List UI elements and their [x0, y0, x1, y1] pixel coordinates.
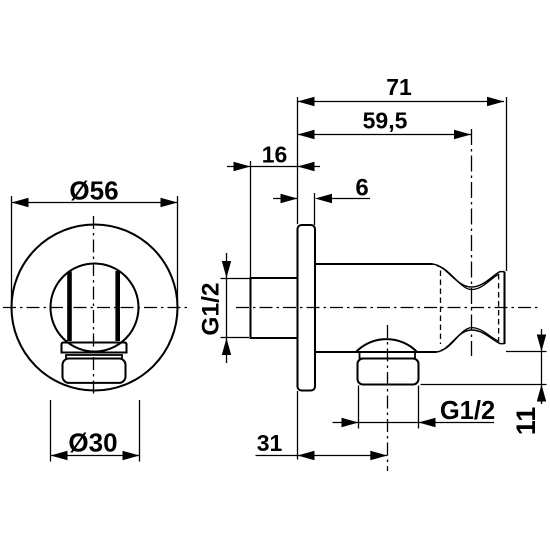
holder slot left thick bar — [67, 272, 72, 342]
svg-text:6: 6 — [355, 175, 368, 202]
dimension 59,5 — [298, 108, 472, 140]
dimension 6 — [273, 175, 370, 226]
bottom outlet dome — [356, 339, 417, 352]
dimension G1/2 left (inlet) — [198, 253, 251, 363]
holder bottom inner curve — [441, 328, 499, 351]
boss inner circle (Ø30) — [51, 264, 139, 352]
svg-text:16: 16 — [262, 142, 288, 168]
wall plate side — [298, 225, 316, 391]
dimension 31 — [256, 391, 388, 460]
svg-text:Ø56: Ø56 — [69, 176, 118, 206]
svg-text:11: 11 — [511, 407, 541, 436]
holder hidden line left — [440, 271, 442, 345]
svg-text:G1/2: G1/2 — [198, 282, 225, 335]
outlet nut front — [63, 359, 126, 383]
body bottom line — [315, 351, 437, 353]
svg-text:31: 31 — [257, 430, 283, 456]
dimension Ø30 — [51, 400, 140, 462]
outlet nut axis centerline — [387, 325, 389, 471]
holder bottom outer curve — [437, 330, 505, 352]
svg-text:59,5: 59,5 — [363, 108, 408, 134]
dimension Ø56 — [12, 176, 178, 306]
holder top inner curve — [437, 266, 499, 290]
wall plate outer circle (Ø56) — [12, 225, 178, 391]
dimension G1/2 bottom (outlet) — [333, 386, 496, 429]
svg-text:71: 71 — [386, 74, 412, 100]
body top line — [315, 263, 433, 265]
holder slot right thick bar — [115, 271, 120, 341]
side view horizontal centerline — [236, 307, 540, 309]
holder axis centerline — [471, 129, 473, 356]
holder hidden line right — [498, 274, 500, 342]
bottom outlet washer side — [360, 353, 416, 359]
svg-text:Ø30: Ø30 — [68, 428, 117, 458]
dimension 71 — [298, 74, 507, 271]
outlet flange front — [62, 343, 127, 353]
holder top outer curve — [433, 264, 505, 287]
outlet washer front — [66, 355, 122, 359]
dimension 16 — [227, 142, 320, 280]
dimension 11 (right) — [421, 329, 547, 435]
svg-text:G1/2: G1/2 — [440, 397, 495, 425]
bottom outlet nut side — [358, 359, 419, 385]
front view horizontal centerline — [3, 307, 191, 309]
holder right edge — [503, 272, 505, 344]
inlet pipe back (G1/2) — [251, 278, 298, 338]
front view vertical centerline — [93, 216, 95, 397]
